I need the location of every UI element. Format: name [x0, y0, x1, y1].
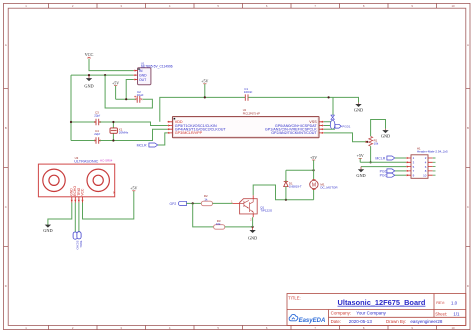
MOTOR [170, 155, 339, 241]
svg-text:C: C [5, 205, 7, 209]
U2 left pin stubs [168, 122, 173, 133]
wire MCLR row to header pin1 [395, 157, 406, 159]
RIGHTSIDE [324, 97, 390, 163]
net flag TRIG [77, 232, 83, 248]
wire regulator OUT to +5V node [126, 80, 133, 100]
Q1 pin stubs [233, 195, 254, 217]
svg-text:1N5819-T: 1N5819-T [289, 185, 302, 189]
wire PGD row to header pin7 [395, 170, 406, 172]
svg-text:B: B [467, 126, 469, 130]
header H1 body [411, 155, 428, 179]
node +5V rail flag [204, 96, 206, 98]
svg-text:GND: GND [43, 228, 52, 233]
svg-text:2: 2 [250, 220, 252, 222]
bottom ruler ticks [49, 325, 437, 329]
node OSC2 / crystal bottom [112, 139, 114, 141]
wire branch to R3 [193, 203, 214, 227]
IC U2 body [173, 117, 320, 138]
ground transistor [248, 227, 257, 241]
ULTRASONIC [38, 156, 137, 250]
svg-text:TIP122G: TIP122G [260, 209, 273, 213]
H1 pin numbers [413, 156, 415, 177]
H1 right pin stubs [428, 158, 433, 175]
svg-text:PGD1: PGD1 [342, 125, 351, 129]
wire PGC row to header pin9 [395, 174, 406, 176]
svg-text:MCLR: MCLR [375, 157, 385, 161]
net flag PGD [380, 169, 395, 173]
wire OSC2 rail [71, 129, 168, 140]
svg-text:1/1: 1/1 [453, 312, 460, 317]
wire GND rail [71, 74, 134, 76]
svg-text:8: 8 [363, 4, 365, 8]
svg-text:SE7805-5V_C114996: SE7805-5V_C114996 [141, 64, 173, 68]
svg-text:ECHO: ECHO [75, 241, 79, 251]
node OSC1 / crystal top [112, 121, 114, 123]
svg-text:7: 7 [314, 4, 316, 8]
TITLE-BLOCK [287, 294, 466, 326]
svg-text:PIC12F675-I/P: PIC12F675-I/P [243, 111, 260, 115]
node +5V / motor top [313, 169, 315, 171]
svg-text:2: 2 [72, 4, 74, 8]
wire diode vertical [285, 170, 287, 200]
svg-text:GND: GND [356, 173, 365, 178]
svg-text:22pf: 22pf [94, 132, 100, 136]
svg-text:1: 1 [25, 4, 27, 8]
svg-text:VCC: VCC [85, 52, 94, 57]
motor M1 [310, 179, 339, 189]
svg-text:REV:: REV: [436, 301, 445, 305]
wire crystal vertical [112, 122, 114, 141]
VCC flag [85, 52, 94, 59]
svg-text:ULTRASONIC: ULTRASONIC [74, 160, 98, 164]
svg-text:Drawn By:: Drawn By: [386, 319, 406, 324]
svg-text:A: A [5, 43, 7, 47]
svg-text:1.0: 1.0 [451, 300, 458, 305]
wire emitter down [252, 217, 254, 227]
wire GP2 flag to R2 [186, 202, 201, 204]
svg-text:DC_MOTOR: DC_MOTOR [320, 186, 338, 190]
svg-text:Company:: Company: [331, 311, 352, 316]
wire C2 return to GND rail [105, 75, 152, 108]
diode D1 [284, 180, 302, 189]
svg-text:M: M [312, 183, 316, 189]
svg-text:Date:: Date: [331, 319, 342, 324]
svg-text:+5V: +5V [130, 186, 137, 191]
svg-text:Sheet:: Sheet: [435, 312, 447, 317]
node GND rail / C2 return [104, 74, 106, 76]
wire U3 VCC [83, 191, 134, 219]
net flag MCLR header [375, 156, 394, 161]
wire OSC1 rail [71, 122, 168, 126]
svg-text:10: 10 [423, 173, 427, 177]
svg-text:IN: IN [139, 69, 143, 73]
node OSC1 rail left [70, 121, 72, 123]
U3 right edge pin mark [113, 192, 115, 194]
svg-text:A: A [467, 43, 469, 47]
wire top motor rail [286, 169, 314, 171]
wire R2 to base [213, 202, 233, 204]
node GND rail / GND symbol [88, 74, 90, 76]
ground ultrasonic [43, 225, 52, 234]
U3 right transducer [87, 169, 109, 191]
wire main +5V rail to C1 [160, 97, 245, 121]
easyeda logo cloud [289, 314, 298, 320]
U3 pin stubs [72, 197, 83, 203]
+5V flag motor [310, 155, 317, 170]
H1 left pin stubs [406, 158, 411, 175]
svg-text:+5V: +5V [112, 80, 119, 85]
net flag PGD1 [335, 124, 351, 128]
svg-text:+5V: +5V [201, 79, 208, 84]
ground right of C1 [354, 103, 363, 113]
svg-text:Your Company: Your Company [356, 311, 386, 316]
wire GP1 stub [324, 128, 335, 130]
svg-text:GP2: GP2 [170, 202, 177, 206]
svg-text:1k: 1k [204, 197, 208, 201]
svg-text:MCLR: MCLR [137, 144, 147, 148]
svg-text:C: C [467, 205, 469, 209]
svg-text:6: 6 [266, 4, 268, 8]
PIC [70, 108, 324, 147]
wire U3 TRIG [78, 203, 80, 232]
svg-text:10k: 10k [374, 142, 379, 146]
ground [84, 75, 93, 89]
wire VCC to regulator IN [89, 59, 134, 71]
svg-text:D: D [467, 284, 469, 288]
svg-text:GP3/MCLR/VPP: GP3/MCLR/VPP [175, 131, 203, 135]
node emitter / R3 / GND [252, 226, 254, 228]
node +5V row / R1 bottom [370, 161, 372, 163]
svg-text:TRIG: TRIG [79, 240, 83, 248]
svg-text:Header-Male-2.54_2x5: Header-Male-2.54_2x5 [417, 149, 448, 153]
wire R1 top to GND [371, 120, 386, 137]
svg-text:PGC: PGC [380, 174, 388, 178]
ultrasonic U3 body [38, 164, 114, 197]
svg-text:HC-SR04: HC-SR04 [100, 159, 113, 163]
ground header [356, 167, 365, 178]
wire GP0 stub [324, 125, 331, 127]
svg-text:9: 9 [411, 4, 413, 8]
svg-text:3: 3 [120, 4, 122, 8]
transistor Q1 [231, 199, 273, 222]
net flag ECHO [73, 232, 79, 250]
svg-text:22pf: 22pf [94, 114, 100, 118]
net flag MCLR [137, 143, 158, 148]
+5V flag left [112, 80, 119, 99]
U1 pin stubs [134, 71, 138, 80]
svg-text:+5V: +5V [310, 155, 317, 160]
wire C1 to GND right [248, 97, 358, 102]
wire R1 bottom [370, 146, 372, 162]
+5V flag mid [201, 79, 208, 98]
net flag PGC [380, 173, 395, 177]
wire collector up and over [253, 185, 313, 200]
svg-text:GND: GND [84, 84, 93, 89]
wire R3 to emitter node [225, 226, 253, 228]
svg-text:GP2/AN2/T0CKI/INT/COUT: GP2/AN2/T0CKI/INT/COUT [271, 131, 317, 135]
svg-text:D: D [5, 284, 7, 288]
U2 right pin stubs [319, 122, 324, 133]
wire GP2 to R1 [324, 133, 368, 142]
svg-text:20MHz: 20MHz [119, 131, 129, 135]
svg-text:10: 10 [451, 4, 455, 8]
node base / R3 branch [192, 202, 194, 204]
svg-text:4: 4 [169, 4, 171, 8]
net flag bowtie [331, 115, 335, 119]
wire U3 ECHO [74, 203, 76, 232]
svg-text:easyengineer28: easyengineer28 [410, 319, 443, 324]
node +5V / regulator OUT [125, 98, 127, 100]
resistor R2 [201, 194, 212, 206]
wire GND row to header pin3 [361, 166, 406, 168]
svg-text:10k: 10k [216, 222, 221, 226]
svg-text:B: B [5, 126, 7, 130]
svg-text:Ultasonic_12F675_Board: Ultasonic_12F675_Board [338, 298, 426, 307]
+5V flag header [357, 153, 364, 162]
top ruler ticks [49, 3, 437, 8]
U1 pin1 mark [138, 68, 139, 69]
ground above R1 [381, 129, 390, 139]
wire GP3 to MCLR flag [158, 133, 168, 145]
svg-text:TITLE:: TITLE: [288, 295, 300, 300]
regulator U1 body [138, 68, 151, 85]
wire U3 GND [48, 203, 72, 226]
svg-text:GND: GND [248, 236, 257, 241]
HEADER [356, 146, 448, 178]
svg-text:100nF: 100nF [244, 90, 253, 94]
U3 pin names rotated [70, 186, 85, 196]
U3 left transducer [43, 169, 65, 191]
wire motor leads [313, 170, 315, 200]
svg-text:EasyEDA: EasyEDA [299, 318, 326, 324]
svg-text:2020-05-13: 2020-05-13 [349, 319, 373, 324]
capacitor C3 [94, 111, 100, 126]
REGULATOR [134, 62, 173, 85]
net flag oval vertical [330, 120, 335, 129]
capacitor C4 [94, 129, 100, 144]
svg-text:10: 10 [451, 326, 455, 330]
crystal X1 [110, 128, 129, 135]
node GP2 / R1 [366, 141, 368, 143]
svg-text:5: 5 [217, 4, 219, 8]
wire VSS to GND drop [324, 97, 333, 121]
wire +5V row to header pin2 [360, 161, 406, 163]
svg-text:GND: GND [381, 134, 390, 139]
node motor rail / D1 [285, 199, 287, 201]
svg-text:VCC: VCC [80, 188, 84, 196]
junction VSS drop [328, 96, 330, 98]
svg-text:GND: GND [354, 108, 363, 113]
net flag GP2 [170, 201, 187, 206]
right ruler ticks [466, 88, 470, 246]
wire left ground vertical [70, 75, 72, 140]
+5V flag ultrasonic [130, 186, 137, 191]
capacitor C2 [134, 90, 143, 103]
capacitor C1 [244, 87, 253, 101]
wire +5V node to C2 [116, 98, 136, 100]
svg-text:+5V: +5V [357, 153, 364, 158]
svg-text:OUT: OUT [139, 78, 146, 82]
resistor R3 [214, 219, 225, 229]
U2 pin1 mark [174, 118, 176, 120]
resistor R1 [369, 136, 379, 146]
left ruler ticks [4, 88, 9, 246]
POWER-TOP [71, 52, 363, 141]
svg-text:GND: GND [139, 74, 147, 78]
